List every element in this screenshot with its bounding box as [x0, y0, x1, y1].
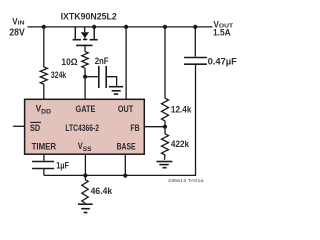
svg-text:1.5A: 1.5A: [213, 26, 231, 37]
transistor Q1 IXTK90N25L2 source stub: [74, 27, 76, 39]
svg-text:BASE: BASE: [117, 141, 136, 152]
wire TIMER pin stub: [43, 154, 45, 161]
svg-text:OUT: OUT: [118, 103, 133, 114]
node 12.4k top junction: [163, 25, 167, 29]
wire BASE pin to bottom rail: [124, 154, 126, 175]
op-amp U1 LTC4366-2 body: [25, 99, 145, 154]
transistor Q1 body-diode cathode bar: [83, 39, 87, 41]
svg-text:324k: 324k: [51, 70, 67, 80]
node VSS junction: [83, 173, 87, 177]
node OUT branch junction: [124, 25, 128, 29]
svg-text:28V: 28V: [9, 28, 25, 39]
wire 10ohm to gate node: [84, 68, 86, 77]
transistor Q1 body-diode arrowhead: [81, 33, 88, 38]
capacitor C 0.47uF top plate: [184, 57, 207, 59]
wire gate lead: [84, 45, 86, 51]
svg-text:SD: SD: [30, 122, 40, 133]
ground for 2nF: [109, 86, 123, 88]
node VIN junction: [42, 25, 46, 29]
node output cap junction: [193, 25, 197, 29]
wire VSS pin to bottom rail: [84, 154, 86, 175]
wire SD pin stub: [13, 125, 25, 127]
wire output cap upper lead: [194, 27, 196, 57]
transistor Q1 body-diode anode lead: [84, 27, 86, 32]
node gate junction: [83, 75, 87, 79]
svg-text:422k: 422k: [171, 139, 190, 149]
resistor R 324k: [40, 67, 47, 84]
svg-text:LTC4366-2: LTC4366-2: [65, 122, 99, 133]
wire output cap lower lead to bottom rail: [44, 65, 196, 175]
wire 324k to VDD pin: [43, 84, 45, 99]
wire 422k to ground: [163, 155, 166, 160]
wire top rail VIN to VOUT: [28, 26, 213, 28]
svg-text:FB: FB: [130, 122, 139, 133]
svg-text:1µF: 1µF: [56, 161, 69, 171]
resistor R 12.4k: [162, 98, 169, 121]
svg-text:46.4k: 46.4k: [91, 186, 113, 196]
transistor Q1 drain stub: [93, 27, 95, 39]
wire FB pin to divider: [144, 126, 165, 128]
node BASE junction: [123, 174, 127, 178]
ground for 46.4k: [78, 203, 93, 205]
capacitor C 2nF left plate: [98, 66, 100, 88]
resistor R 422k: [162, 134, 169, 155]
wire gate node to GATE pin: [84, 77, 86, 100]
svg-text:2nF: 2nF: [95, 56, 109, 66]
wire 12.4k upper lead: [164, 27, 166, 98]
capacitor C 2nF right plate: [105, 66, 107, 88]
svg-text:IXTK90N25L2: IXTK90N25L2: [61, 12, 117, 22]
wire 324k branch upper lead: [43, 27, 45, 67]
svg-text:10Ω: 10Ω: [61, 57, 77, 67]
ground for 422k: [157, 161, 173, 163]
svg-text:12.4k: 12.4k: [171, 104, 192, 114]
transistor Q1 source bar: [73, 39, 81, 41]
transistor Q1 drain bar: [90, 39, 98, 41]
capacitor C 1uF bottom plate: [32, 168, 54, 170]
svg-text:436612 TA01a: 436612 TA01a: [168, 178, 204, 183]
node FB junction: [163, 125, 167, 129]
capacitor C 1uF top plate: [32, 161, 54, 163]
wire OUT pin branch: [125, 27, 127, 99]
svg-text:0.47µF: 0.47µF: [208, 56, 238, 66]
wire 1uF lower lead: [43, 169, 45, 175]
resistor R 10ohm: [82, 52, 88, 69]
capacitor C 0.47uF bottom plate: [184, 63, 207, 65]
svg-text:GATE: GATE: [76, 103, 96, 114]
wire gate node to C 2nF: [85, 76, 98, 78]
svg-text:TIMER: TIMER: [32, 140, 57, 151]
wire VSS to 46.4k: [84, 176, 86, 180]
resistor R 46.4k: [82, 179, 88, 203]
wire 2nF to ground stem: [107, 77, 117, 86]
wire 12.4k to FB node: [164, 121, 166, 127]
transistor Q1 gate bar: [76, 44, 92, 46]
node drain junction: [92, 25, 96, 29]
wire FB node to 422k: [164, 127, 166, 134]
wire 46.4k to ground: [84, 202, 86, 205]
